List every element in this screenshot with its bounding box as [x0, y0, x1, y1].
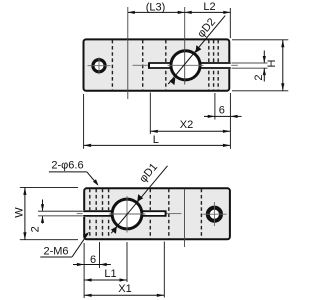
hidden bolt dashed line — [208, 40, 210, 91]
small hole crosshair — [202, 202, 226, 226]
D2 vertical centerline — [184, 7, 186, 85]
counterbore hole (top view small ring) — [93, 60, 105, 72]
D2 horizontal centerline — [168, 64, 204, 66]
bottom view block body — [84, 188, 230, 239]
slit (bottom view) — [83, 210, 167, 217]
dimension X2 — [150, 93, 230, 135]
label 2-M6 with leader — [40, 232, 89, 258]
svg-text:φD1: φD1 — [137, 161, 160, 185]
dimension 2 (slit width, bottom view) — [30, 200, 83, 233]
centerline horizontal segment — [167, 213, 182, 215]
dimension H — [232, 40, 288, 91]
hole D1 circle — [112, 199, 142, 229]
svg-text:6: 6 — [219, 104, 225, 116]
top view block body — [84, 39, 230, 90]
svg-text:L1: L1 — [104, 268, 116, 280]
svg-text:2: 2 — [30, 226, 42, 232]
tapped hole M6 (bottom view small ring) — [208, 208, 221, 221]
dimension 6 (bottom view) — [73, 242, 111, 268]
dimension L1 — [84, 242, 127, 298]
svg-text:L: L — [153, 134, 159, 146]
hidden bolt dashed line — [217, 40, 219, 91]
hidden hole dashed line — [142, 40, 144, 91]
dimension L — [84, 93, 231, 149]
dimension W — [14, 187, 79, 239]
svg-text:2-φ6.6: 2-φ6.6 — [51, 159, 83, 171]
svg-text:2: 2 — [253, 74, 265, 80]
small hole crosshair — [88, 57, 111, 74]
centerline horizontal segment — [133, 64, 149, 66]
centerline D1 axis — [127, 7, 129, 99]
svg-text:(L3): (L3) — [146, 2, 166, 14]
svg-text:2-M6: 2-M6 — [43, 246, 68, 258]
hidden bolt dashed line — [89, 189, 91, 239]
centerline overhang at left edge — [77, 213, 83, 215]
hidden edge dashed line — [149, 189, 151, 239]
svg-text:H: H — [266, 59, 278, 67]
hidden bolt dashed line — [95, 189, 97, 239]
D1 horizontal centerline — [109, 213, 146, 215]
dimension (L3) — [128, 2, 185, 14]
hidden edge dashed line — [165, 40, 167, 91]
hidden bolt dashed line — [213, 40, 215, 91]
svg-text:6: 6 — [90, 254, 96, 266]
dimension 6 (top view) — [204, 93, 242, 120]
svg-text:W: W — [14, 207, 26, 218]
hidden edge dashed line — [108, 189, 110, 239]
centerline D2 axis — [184, 189, 186, 247]
hidden hole dashed line — [200, 189, 202, 239]
label 2-phi6.6 with leader — [49, 159, 99, 185]
hidden bolt dashed line — [102, 189, 104, 239]
dimension phi D1 leader — [111, 161, 168, 234]
dimension X1 — [84, 242, 164, 298]
svg-text:X1: X1 — [118, 283, 131, 295]
hidden hole dashed line — [111, 40, 113, 91]
svg-text:X2: X2 — [180, 119, 193, 131]
dimension L2 — [185, 1, 231, 38]
hidden hole dashed line — [168, 189, 170, 239]
centerline overhang at right edge — [231, 64, 238, 66]
D1 vertical centerline — [126, 196, 128, 233]
dimension phi D2 leader — [168, 16, 225, 86]
hole D2 circle — [171, 51, 200, 80]
slit (top view) — [148, 62, 232, 69]
dimension 2 (slit width, top view) — [232, 51, 268, 82]
svg-text:L2: L2 — [203, 1, 215, 13]
